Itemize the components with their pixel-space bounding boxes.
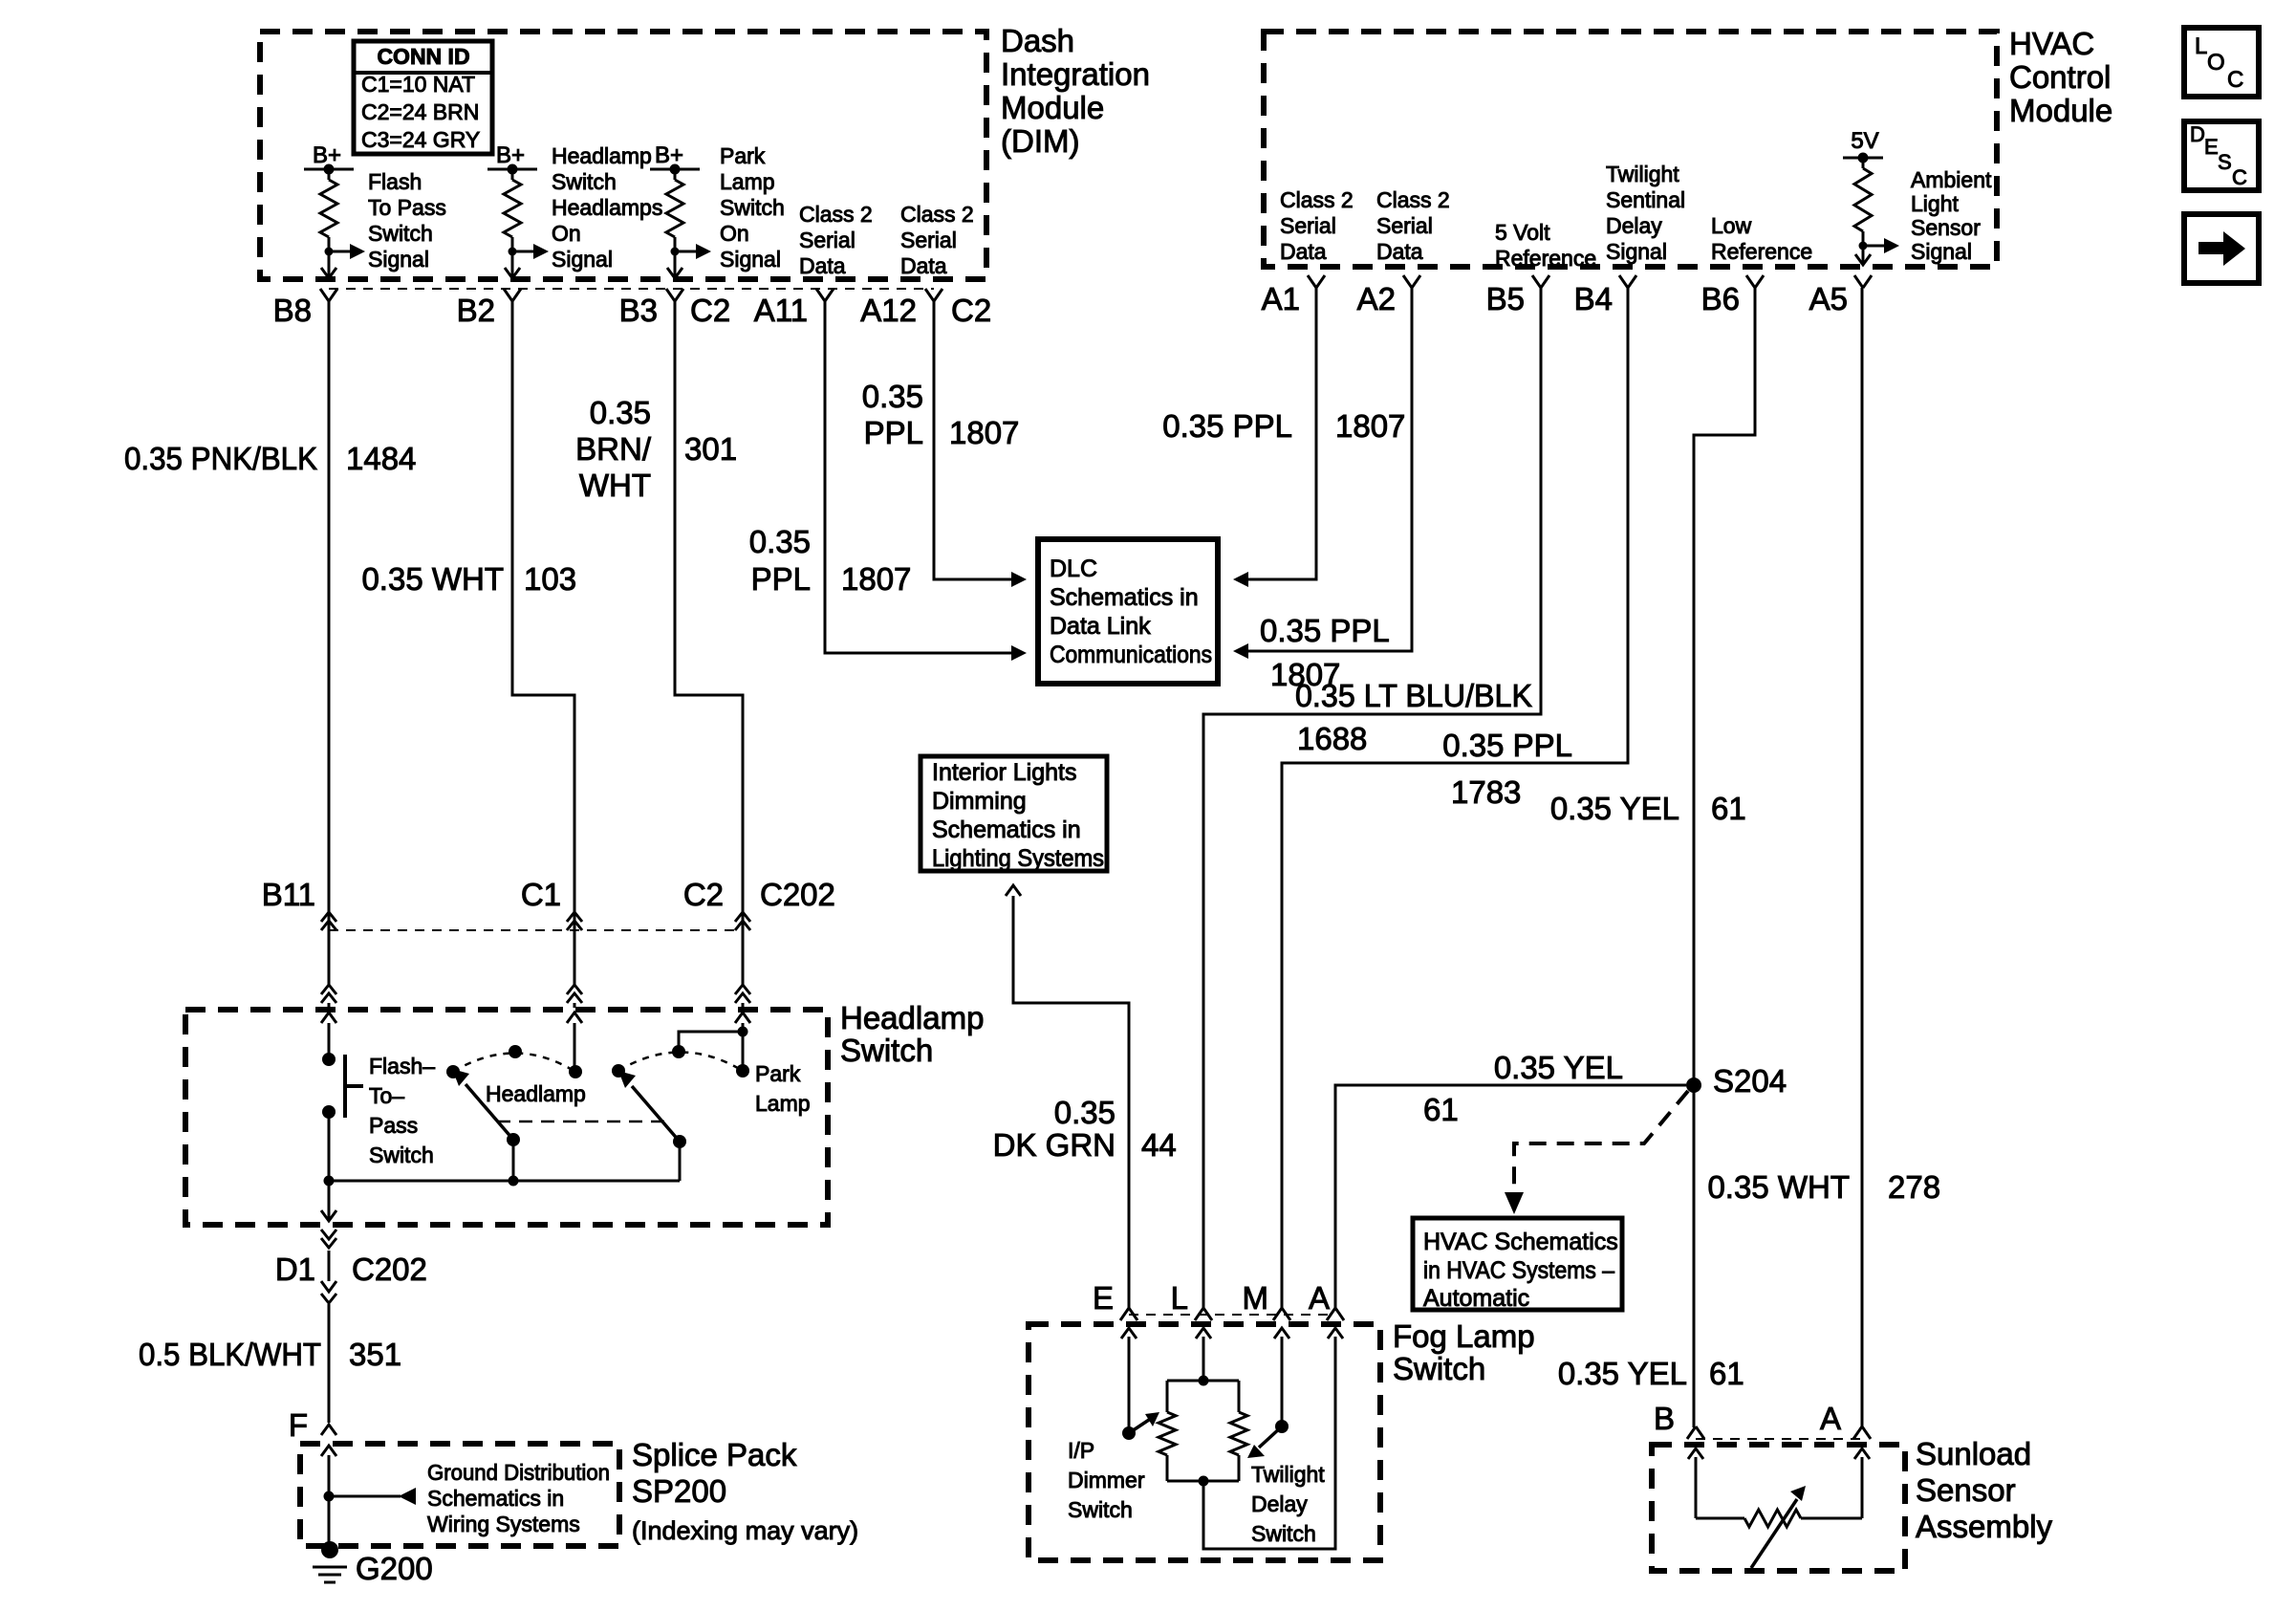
pin label A12 — [860, 293, 917, 328]
DIM connector dashed line C2 — [329, 288, 934, 290]
twilight delay switch wiper contact — [1275, 1420, 1289, 1433]
label HVAC Control Module — [2009, 26, 2112, 128]
pin label C1 — [521, 877, 561, 912]
connector chevrons below headlamp switch — [321, 1230, 336, 1248]
svg-text:E: E — [2204, 135, 2219, 159]
pin A5 connector fork — [1854, 275, 1872, 288]
svg-text:C: C — [2232, 165, 2247, 189]
svg-text:Headlamp: Headlamp — [486, 1081, 586, 1106]
resistor: ambient light sensor pull-up — [1854, 158, 1872, 246]
svg-text:Switch: Switch — [368, 221, 433, 246]
svg-text:Interior Lights: Interior Lights — [932, 759, 1076, 786]
label Park Lamp Switch On Signal — [720, 143, 785, 272]
junction: park lamp feed — [738, 1027, 748, 1037]
svg-text:Sunload: Sunload — [1916, 1436, 2031, 1471]
wire label 0.35 PPL 1807 (A12) — [862, 379, 1020, 450]
wire: resistor to DIM pin B3 with down arrow — [667, 251, 682, 278]
svg-text:G200: G200 — [356, 1551, 433, 1586]
svg-text:Switch: Switch — [840, 1033, 933, 1068]
label Twilight Sentinal Delay Signal (pin B4) — [1606, 162, 1685, 264]
svg-text:0.35 PNK/BLK: 0.35 PNK/BLK — [124, 441, 317, 476]
label Twilight Delay Switch — [1251, 1462, 1325, 1546]
svg-text:C202: C202 — [760, 877, 835, 912]
connector chevrons wire C1 at C202 — [567, 912, 582, 1008]
reference box DLC Schematics in Data Link Communications — [1038, 539, 1218, 684]
dashed reference path from S204 to HVAC schematics — [1505, 1091, 1688, 1214]
headlamp switch armature (wiper arm) — [452, 1069, 513, 1140]
wire label 0.35 PNK/BLK 1484 — [124, 441, 416, 476]
svg-text:Switch: Switch — [1251, 1521, 1316, 1546]
svg-text:Control: Control — [2009, 59, 2111, 95]
svg-text:On: On — [552, 221, 581, 246]
connector C202 dashed line (upper) — [329, 929, 743, 931]
pin label C202 — [760, 877, 835, 912]
label Ambient Light Sensor Signal — [1911, 167, 1992, 264]
svg-text:Signal: Signal — [1606, 239, 1667, 264]
svg-text:Lamp: Lamp — [720, 169, 775, 194]
legend box LOC — [2184, 28, 2259, 97]
pin A2 connector fork — [1403, 275, 1420, 288]
I/P dimmer switch wiper contact — [1122, 1426, 1136, 1440]
svg-text:BRN/: BRN/ — [575, 431, 652, 467]
svg-text:Dimming: Dimming — [932, 788, 1027, 815]
pin label A1 — [1262, 281, 1300, 316]
svg-text:Dash: Dash — [1001, 23, 1074, 58]
connector chevrons wire B11 at C202 — [321, 912, 336, 1008]
wire label 0.35 YEL 61 (B6) — [1550, 791, 1746, 826]
svg-text:A5: A5 — [1809, 281, 1848, 316]
connector C202 symbols (D1) — [321, 1281, 336, 1423]
wire circuit 351 to splice pack — [328, 1251, 331, 1281]
svg-text:Class 2: Class 2 — [799, 202, 873, 227]
wire label 0.35 WHT 278 — [1707, 1169, 1940, 1205]
wire label 0.35 YEL 61 (S204 feed) — [1423, 1050, 1623, 1127]
svg-text:Module: Module — [1001, 90, 1104, 125]
module HVAC Control Module dashed box — [1264, 32, 1997, 267]
wire: resistor to HVAC pin A5 with down arrow — [1855, 246, 1871, 265]
svg-text:C: C — [2227, 67, 2243, 93]
svg-text:A: A — [1820, 1401, 1841, 1436]
resistor: flash to pass switch signal pull-up — [320, 169, 337, 251]
pin label B11 — [262, 877, 315, 912]
wire: fog lamp switch E to interior lights dimming (0.35 DK GRN 44) — [1006, 885, 1129, 1309]
svg-text:Signal: Signal — [720, 247, 781, 272]
pin A connector fork (sunload) — [1853, 1426, 1871, 1439]
svg-text:301: 301 — [684, 431, 737, 467]
label Flash To Pass Switch Signal — [368, 169, 446, 272]
pin B connector fork — [1687, 1426, 1704, 1439]
pin label A (sunload) — [1820, 1401, 1841, 1436]
wire label 0.35 PPL 1807 (A1) — [1162, 408, 1405, 444]
svg-text:Schematics in: Schematics in — [1050, 584, 1199, 611]
svg-text:0.35 YEL: 0.35 YEL — [1558, 1356, 1687, 1391]
pin B4 connector fork — [1619, 275, 1636, 288]
label Class 2 Serial Data (pin A2) — [1376, 187, 1450, 264]
park lamp armature (wiper arm) — [618, 1071, 680, 1142]
svg-text:1484: 1484 — [346, 441, 416, 476]
svg-text:Pass: Pass — [369, 1113, 418, 1138]
svg-text:Data: Data — [799, 253, 846, 278]
svg-text:Data: Data — [1280, 239, 1327, 264]
svg-text:Module: Module — [2009, 93, 2112, 128]
svg-text:C202: C202 — [352, 1252, 427, 1287]
svg-text:Sensor: Sensor — [1916, 1472, 2016, 1508]
legend box forward arrow — [2184, 214, 2259, 283]
svg-text:Headlamp: Headlamp — [840, 1000, 984, 1035]
svg-text:I/P: I/P — [1068, 1438, 1094, 1463]
signal tap arrow (flash to pass switch signal) — [325, 244, 366, 259]
label Dash Integration Module (DIM) — [1001, 23, 1150, 159]
wire label 0.5 BLK/WHT 351 — [139, 1337, 401, 1372]
wire B11 leaving headlamp switch with down arrow — [321, 1181, 336, 1221]
resistor: park lamp switch on signal pull-up — [666, 169, 683, 251]
svg-text:O: O — [2207, 50, 2225, 76]
pin label B2 — [457, 293, 495, 328]
svg-text:S: S — [2218, 150, 2232, 174]
pin label A2 — [1357, 281, 1396, 316]
svg-text:Serial: Serial — [1280, 213, 1336, 238]
svg-text:61: 61 — [1711, 791, 1746, 826]
wire: resistor network to pin A — [1203, 1328, 1343, 1549]
svg-text:D: D — [2190, 122, 2205, 146]
svg-text:DK GRN: DK GRN — [993, 1127, 1116, 1163]
label Low Reference (pin B6) — [1711, 213, 1812, 264]
pin label B5 — [1486, 281, 1525, 316]
svg-text:Automatic: Automatic — [1423, 1285, 1529, 1312]
ground G200 symbol — [313, 1541, 347, 1582]
splice node S204 — [1686, 1078, 1701, 1093]
pin label C202 (lower) — [352, 1252, 427, 1287]
svg-text:Switch: Switch — [1393, 1351, 1485, 1386]
svg-text:0.35: 0.35 — [862, 379, 923, 414]
svg-text:DLC: DLC — [1050, 555, 1097, 582]
wire A5 ambient light sensor signal circuit 278 to sunload sensor A — [1861, 288, 1864, 1427]
variable arrow through sunload photoresistor — [1751, 1486, 1806, 1568]
svg-text:On: On — [720, 221, 749, 246]
svg-text:Schematics in: Schematics in — [427, 1486, 564, 1511]
hook wire to park lamp center contact — [679, 1032, 743, 1052]
wire splice to ground G200 — [328, 1496, 331, 1543]
svg-text:HVAC: HVAC — [2009, 26, 2094, 61]
wire M inside fog lamp switch with up arrow — [1274, 1328, 1289, 1426]
svg-text:Serial: Serial — [900, 228, 957, 252]
svg-text:Low: Low — [1711, 213, 1752, 238]
label Splice Pack SP200 (Indexing may vary) — [632, 1437, 858, 1545]
svg-text:Twilight: Twilight — [1606, 162, 1679, 186]
svg-text:B4: B4 — [1574, 281, 1613, 316]
svg-text:Data: Data — [900, 253, 947, 278]
wire A11 class 2 serial data circuit 1807 — [825, 301, 1027, 661]
wire B6 low reference circuit 61 to splice S204 — [1694, 288, 1755, 1427]
wire label 0.35 PPL 1807 (A11) — [749, 524, 912, 597]
resistor: twilight delay (right branch) — [1230, 1381, 1247, 1481]
pin label D1 — [275, 1252, 315, 1287]
svg-text:5 Volt: 5 Volt — [1495, 220, 1550, 245]
B+ supply node for park lamp resistor — [650, 142, 700, 175]
5V supply node for ambient light sensor resistor — [1843, 128, 1883, 163]
module Headlamp Switch dashed box — [185, 1010, 828, 1225]
wire B3 circuit 301 (DIM B3 to headlamp switch C2) — [675, 301, 743, 930]
headlamp switch rotor arc (dashed) with contacts — [446, 1045, 582, 1078]
svg-text:C1=10 NAT: C1=10 NAT — [361, 72, 475, 97]
svg-text:Integration: Integration — [1001, 56, 1150, 92]
svg-text:B5: B5 — [1486, 281, 1525, 316]
wire C2/C202 inside headlamp switch with up arrow to junction — [735, 1012, 750, 1032]
svg-text:Signal: Signal — [552, 247, 613, 272]
pin label L — [1171, 1280, 1188, 1316]
pin label E — [1093, 1280, 1114, 1316]
pin label A5 — [1809, 281, 1848, 316]
wire A1 class 2 serial data to DLC — [1233, 288, 1316, 587]
svg-text:0.35: 0.35 — [1054, 1095, 1116, 1130]
svg-text:Class 2: Class 2 — [1280, 187, 1354, 212]
svg-text:61: 61 — [1423, 1092, 1459, 1127]
svg-text:Lamp: Lamp — [755, 1091, 811, 1116]
svg-text:Switch: Switch — [1068, 1497, 1133, 1522]
svg-text:B11: B11 — [262, 877, 315, 912]
svg-text:Switch: Switch — [720, 195, 785, 220]
svg-text:0.35 PPL: 0.35 PPL — [1162, 408, 1292, 444]
wire entering splice pack with up arrow — [321, 1446, 336, 1496]
svg-text:WHT: WHT — [579, 468, 651, 503]
svg-text:C2: C2 — [951, 293, 991, 328]
pin label B6 — [1701, 281, 1740, 316]
svg-text:351: 351 — [349, 1337, 401, 1372]
wire B5 5 volt reference circuit 1688 to fog lamp switch L — [1203, 288, 1541, 1309]
pin B6 connector fork — [1746, 275, 1764, 288]
legend box DESC — [2184, 121, 2259, 190]
svg-text:B6: B6 — [1701, 281, 1740, 316]
wire L inside fog lamp switch with up arrow — [1196, 1328, 1211, 1381]
pin B2 connector fork — [504, 289, 521, 301]
connector chevrons wire C2/C202 at C202 — [735, 912, 750, 1008]
signal tap arrow (headlamps on signal) — [509, 244, 550, 259]
svg-text:Park: Park — [755, 1061, 801, 1086]
svg-text:Delay: Delay — [1606, 213, 1662, 238]
svg-text:Lighting Systems: Lighting Systems — [932, 845, 1104, 872]
svg-text:Headlamps: Headlamps — [552, 195, 662, 220]
svg-text:B3: B3 — [619, 293, 658, 328]
svg-text:0.35 WHT: 0.35 WHT — [361, 561, 504, 597]
svg-text:Fog Lamp: Fog Lamp — [1393, 1318, 1535, 1354]
label 5 Volt Reference (pin B5) — [1495, 220, 1596, 271]
svg-text:Assembly: Assembly — [1916, 1509, 2053, 1544]
svg-text:D1: D1 — [275, 1252, 315, 1287]
pin label B (sunload) — [1654, 1401, 1675, 1436]
pin E connector fork — [1120, 1308, 1137, 1320]
wire A12 class 2 serial data circuit 1807 — [934, 301, 1027, 587]
svg-text:0.35 YEL: 0.35 YEL — [1494, 1050, 1623, 1085]
svg-text:5V: 5V — [1851, 128, 1878, 154]
wire B2 circuit 103 (DIM B2 to headlamp switch C1) — [512, 301, 574, 930]
svg-text:103: 103 — [524, 561, 576, 597]
svg-text:Switch: Switch — [552, 169, 617, 194]
wire label 0.35 PPL 1783 — [1442, 728, 1572, 810]
svg-text:0.35 WHT: 0.35 WHT — [1707, 1169, 1850, 1205]
wire: resistor to DIM pin B8 with down arrow — [321, 251, 336, 278]
wire B8 circuit 1484 (DIM B8 to headlamp switch B11) — [328, 301, 331, 930]
svg-text:0.35: 0.35 — [749, 524, 811, 559]
svg-text:Delay: Delay — [1251, 1491, 1308, 1516]
svg-text:Ambient: Ambient — [1911, 167, 1992, 192]
photoresistor: sunload sensor element — [1696, 1510, 1862, 1527]
svg-text:in HVAC Systems –: in HVAC Systems – — [1423, 1257, 1614, 1284]
svg-text:To–: To– — [369, 1083, 404, 1108]
svg-text:0.35 LT BLU/BLK: 0.35 LT BLU/BLK — [1295, 678, 1532, 713]
pin label B8 — [273, 293, 312, 328]
label Headlamp (rotor) — [486, 1081, 586, 1106]
svg-text:PPL: PPL — [864, 415, 923, 450]
pin label A11 — [754, 293, 808, 328]
pin A1 connector fork — [1308, 275, 1325, 288]
pin label C2 (connector id, A12) — [951, 293, 991, 328]
module Sunload Sensor Assembly dashed box — [1652, 1445, 1905, 1571]
reference box HVAC Schematics in HVAC Systems - Automatic — [1413, 1218, 1622, 1312]
label Park Lamp (rotor) — [755, 1061, 811, 1116]
svg-text:C3=24 GRY: C3=24 GRY — [361, 127, 480, 152]
svg-text:A12: A12 — [860, 293, 917, 328]
pin A12 connector fork — [925, 289, 942, 301]
svg-text:Communications: Communications — [1050, 642, 1212, 668]
svg-text:1807: 1807 — [949, 415, 1019, 450]
svg-text:B+: B+ — [655, 142, 683, 168]
svg-text:0.35: 0.35 — [590, 395, 651, 430]
svg-text:Reference: Reference — [1711, 239, 1812, 264]
module Fog Lamp Switch dashed box — [1029, 1324, 1380, 1560]
svg-text:0.35 YEL: 0.35 YEL — [1550, 791, 1679, 826]
signal tap arrow (park lamp switch on signal) — [671, 244, 712, 259]
flash-to-pass switch lower contact — [322, 1105, 336, 1119]
svg-text:Park: Park — [720, 143, 766, 168]
svg-text:To Pass: To Pass — [368, 195, 446, 220]
wire label 0.35 LT BLU/BLK 1688 — [1295, 678, 1532, 756]
label I/P Dimmer Switch — [1068, 1438, 1145, 1522]
svg-text:Sentinal: Sentinal — [1606, 187, 1685, 212]
svg-text:PPL: PPL — [751, 561, 811, 597]
svg-text:Schematics in: Schematics in — [932, 816, 1081, 843]
pin label F — [289, 1407, 308, 1443]
svg-text:Headlamp: Headlamp — [552, 143, 652, 168]
svg-text:Signal: Signal — [1911, 239, 1972, 264]
connector dashed line above sunload sensor — [1696, 1438, 1862, 1440]
wire A inside sunload sensor with up arrow — [1854, 1448, 1870, 1518]
module Splice Pack SP200 dashed box — [300, 1444, 619, 1546]
svg-text:F: F — [289, 1407, 308, 1443]
pin L connector fork — [1195, 1308, 1212, 1320]
svg-text:Ground Distribution: Ground Distribution — [427, 1460, 610, 1485]
svg-text:S204: S204 — [1713, 1063, 1787, 1099]
pin A connector fork — [1327, 1308, 1344, 1320]
B+ supply node for flash-to-pass resistor — [304, 142, 354, 175]
svg-text:HVAC Schematics: HVAC Schematics — [1423, 1229, 1618, 1255]
svg-text:278: 278 — [1888, 1169, 1940, 1205]
svg-text:Wiring Systems: Wiring Systems — [427, 1512, 580, 1536]
resistor network top rail with junction — [1167, 1376, 1239, 1386]
pin label B3 — [619, 293, 658, 328]
park lamp rotor arc (dashed) with contacts — [612, 1045, 749, 1078]
svg-text:Splice Pack: Splice Pack — [632, 1437, 797, 1472]
svg-text:A11: A11 — [754, 293, 808, 328]
svg-text:L: L — [1171, 1280, 1188, 1316]
svg-text:A1: A1 — [1262, 281, 1300, 316]
label Class 2 Serial Data (pin A11) — [799, 202, 873, 278]
headlamp switch pivot — [507, 1133, 520, 1181]
wire C1 inside headlamp switch with up arrow — [567, 1012, 582, 1072]
svg-text:Data Link: Data Link — [1050, 613, 1151, 640]
svg-text:Light: Light — [1911, 191, 1959, 216]
svg-text:1807: 1807 — [1335, 408, 1405, 444]
CONN ID table — [354, 41, 492, 154]
svg-text:Signal: Signal — [368, 247, 429, 272]
svg-text:A2: A2 — [1357, 281, 1396, 316]
wire E inside fog lamp switch with up arrow — [1121, 1328, 1137, 1433]
svg-text:M: M — [1243, 1280, 1269, 1316]
svg-text:(Indexing may vary): (Indexing may vary) — [632, 1516, 858, 1545]
B+ supply node for headlamp switch resistor — [487, 142, 537, 175]
pin B8 connector fork — [320, 289, 337, 301]
pin B5 connector fork — [1532, 275, 1549, 288]
svg-text:Flash: Flash — [368, 169, 422, 194]
wire: flash-to-pass lower contact to bus — [328, 1112, 331, 1181]
svg-text:1688: 1688 — [1297, 721, 1367, 756]
pin label C2 (connector id) — [690, 293, 730, 328]
svg-text:L: L — [2195, 33, 2207, 59]
svg-text:(DIM): (DIM) — [1001, 123, 1079, 159]
resistor: I/P dimmer (left branch) — [1159, 1381, 1176, 1481]
wire B4 twilight sentinal delay signal circuit 1783 to fog lamp switch M — [1282, 288, 1628, 1309]
svg-text:C2: C2 — [683, 877, 724, 912]
svg-text:B8: B8 — [273, 293, 312, 328]
svg-text:B: B — [1654, 1401, 1675, 1436]
wire B inside sunload sensor with up arrow — [1688, 1448, 1703, 1518]
label Class 2 Serial Data (pin A12) — [900, 202, 974, 278]
svg-text:1807: 1807 — [841, 561, 911, 597]
svg-text:C1: C1 — [521, 877, 561, 912]
label Class 2 Serial Data (pin A1) — [1280, 187, 1354, 264]
svg-text:Dimmer: Dimmer — [1068, 1468, 1145, 1492]
connector chevron at F — [321, 1425, 336, 1435]
pin label A — [1309, 1280, 1330, 1316]
svg-text:A: A — [1309, 1280, 1330, 1316]
flash-to-pass switch upper contact — [322, 1053, 336, 1066]
svg-text:SP200: SP200 — [632, 1473, 726, 1509]
svg-text:E: E — [1093, 1280, 1114, 1316]
label Headlamp Switch Headlamps On Signal — [552, 143, 662, 272]
svg-text:61: 61 — [1709, 1356, 1744, 1391]
pin label C2 (headlamp switch) — [683, 877, 724, 912]
resistor network bottom rail with junction — [1167, 1476, 1239, 1487]
svg-text:0.35 PPL: 0.35 PPL — [1260, 613, 1390, 648]
label G200 — [356, 1551, 433, 1586]
svg-text:Serial: Serial — [799, 228, 856, 252]
label Flash-To-Pass Switch — [369, 1054, 435, 1167]
svg-text:C2=24 BRN: C2=24 BRN — [361, 99, 479, 124]
headlamp switch common bus wire — [324, 1176, 681, 1186]
wire label 0.35 WHT 103 — [361, 561, 576, 597]
svg-text:C2: C2 — [690, 293, 730, 328]
pin B3 connector fork — [666, 289, 683, 301]
wire C202 junction to right arc contact — [742, 1032, 745, 1071]
label Ground Distribution Schematics in Wiring Systems — [427, 1460, 610, 1536]
svg-text:44: 44 — [1141, 1127, 1177, 1163]
svg-text:1783: 1783 — [1451, 774, 1521, 810]
wire A2 class 2 serial data to DLC — [1233, 288, 1412, 659]
splice junction to ground distribution reference — [324, 1488, 417, 1505]
svg-text:Class 2: Class 2 — [1376, 187, 1450, 212]
svg-text:Flash–: Flash– — [369, 1054, 435, 1078]
reference box Interior Lights Dimming Schematics in Lighting Systems — [921, 756, 1107, 872]
label S204 — [1713, 1063, 1787, 1099]
